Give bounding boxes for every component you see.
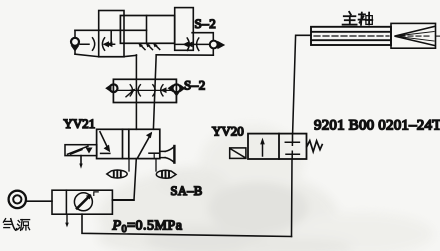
valve body YV20 (248, 134, 307, 159)
drain arrow (66, 214, 68, 223)
check valve seat (lower S-2 left) (105, 84, 111, 93)
regulator circle (74, 193, 92, 211)
spindle shaft (311, 27, 391, 45)
check valve circle (lower S-2 right) (173, 84, 181, 92)
filter divider (65, 190, 67, 214)
solenoid plunger spike YV21 (80, 156, 82, 165)
left cell flow path YV21 (101, 152, 110, 154)
check valve seat (right S-2) (217, 41, 225, 50)
cylinder block body (120, 16, 174, 44)
svg-text:YV20: YV20 (212, 124, 244, 139)
cylinder block divider (146, 16, 148, 44)
throttle body box (right S-2) (175, 8, 194, 51)
muffler left YV21 (128, 159, 130, 171)
throttle arcs (left S-2) (93, 38, 95, 50)
svg-text:S–2: S–2 (195, 16, 217, 31)
air source double circle (9, 191, 26, 208)
valve body YV21 (97, 129, 160, 158)
divider YV20 (278, 134, 280, 159)
check valve seat (left S-2) (71, 45, 80, 51)
motion hatch arrows under block (140, 44, 146, 50)
check arrow (left S-2) (80, 43, 115, 45)
svg-text:9201 B00 0201–24T: 9201 B00 0201–24T (314, 118, 440, 134)
wire through valve YV20 (291, 134, 293, 159)
wire stub below circle (lower S-2 right) (176, 96, 178, 102)
outlet wire filter to riser (112, 199, 134, 201)
horn (right end) YV21 (160, 151, 166, 157)
flow arrow YV20 (262, 142, 264, 157)
svg-text:SA–B: SA–B (171, 184, 203, 198)
filter regulator body (52, 190, 112, 214)
spring YV20 (307, 141, 323, 152)
right cell flow path YV21 (138, 134, 151, 158)
divider lines YV21 (122, 129, 124, 158)
spindle collet block (391, 23, 436, 48)
check valve circle (lower S-2 left) (110, 84, 118, 92)
check arrow (right S-2) (183, 41, 189, 47)
interior flow line (lower S-2) (117, 89, 173, 91)
wire circle top stub (74, 30, 76, 37)
muffler right YV21 (155, 159, 157, 171)
throttle body box (left S-2) (99, 11, 124, 57)
riser to YV20 (291, 159, 294, 237)
blocked port top YV20 (285, 142, 299, 145)
adjuster mark (94, 192, 98, 196)
solenoid YV21 (65, 145, 97, 156)
check valve port circle (left S-2 throttle) (71, 38, 79, 46)
axis line right (436, 35, 440, 37)
supply drop wire from YV21 (112, 159, 136, 200)
throttle arcs B (lower S-2) (153, 85, 155, 96)
check valve circle (right S-2) (210, 41, 218, 49)
supply rail bottom (82, 214, 292, 236)
wire leg right (153, 55, 156, 130)
check arrow B (lower S-2) (160, 87, 166, 93)
second throttle body box (S-2 lower) (113, 79, 176, 102)
wire air source to filter (26, 200, 52, 202)
check valve seats (lower S-2 right) (168, 84, 173, 92)
wire spindle to YV20 (293, 35, 311, 133)
label 气源 (drawn glyphs) (3, 219, 29, 231)
wire circle bottom stub (74, 51, 76, 55)
solenoid YV20 (230, 148, 246, 159)
label 主轴 (drawn glyphs) (343, 12, 373, 25)
enclosure top (right S-2) (192, 33, 213, 41)
wire rail right (156, 54, 213, 56)
wire top path (75, 29, 147, 31)
wire riser inside left box (110, 30, 112, 44)
throttle arcs (right S-2) (187, 38, 189, 50)
svg-text:YV21: YV21 (64, 116, 96, 131)
blocked port bottom YV20 (286, 151, 299, 154)
enclosure bottom stub (right S-2) (212, 49, 214, 55)
svg-text:S–2: S–2 (184, 77, 206, 92)
blocked port bar YV21 (149, 152, 160, 154)
throttle arcs A (lower S-2) (130, 85, 132, 96)
check arrow A (lower S-2) (126, 90, 134, 97)
flow line (right S-2) (175, 43, 210, 45)
wire bottom rail left (75, 54, 136, 56)
wire leg left (135, 55, 137, 129)
